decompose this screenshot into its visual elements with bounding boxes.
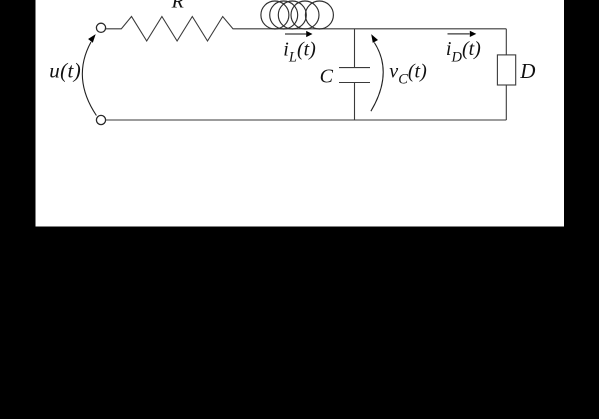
svg-text:u(t): u(t) [49, 59, 81, 83]
svg-text:D: D [519, 59, 535, 83]
svg-text:R: R [171, 0, 184, 13]
svg-text:C: C [320, 65, 334, 87]
